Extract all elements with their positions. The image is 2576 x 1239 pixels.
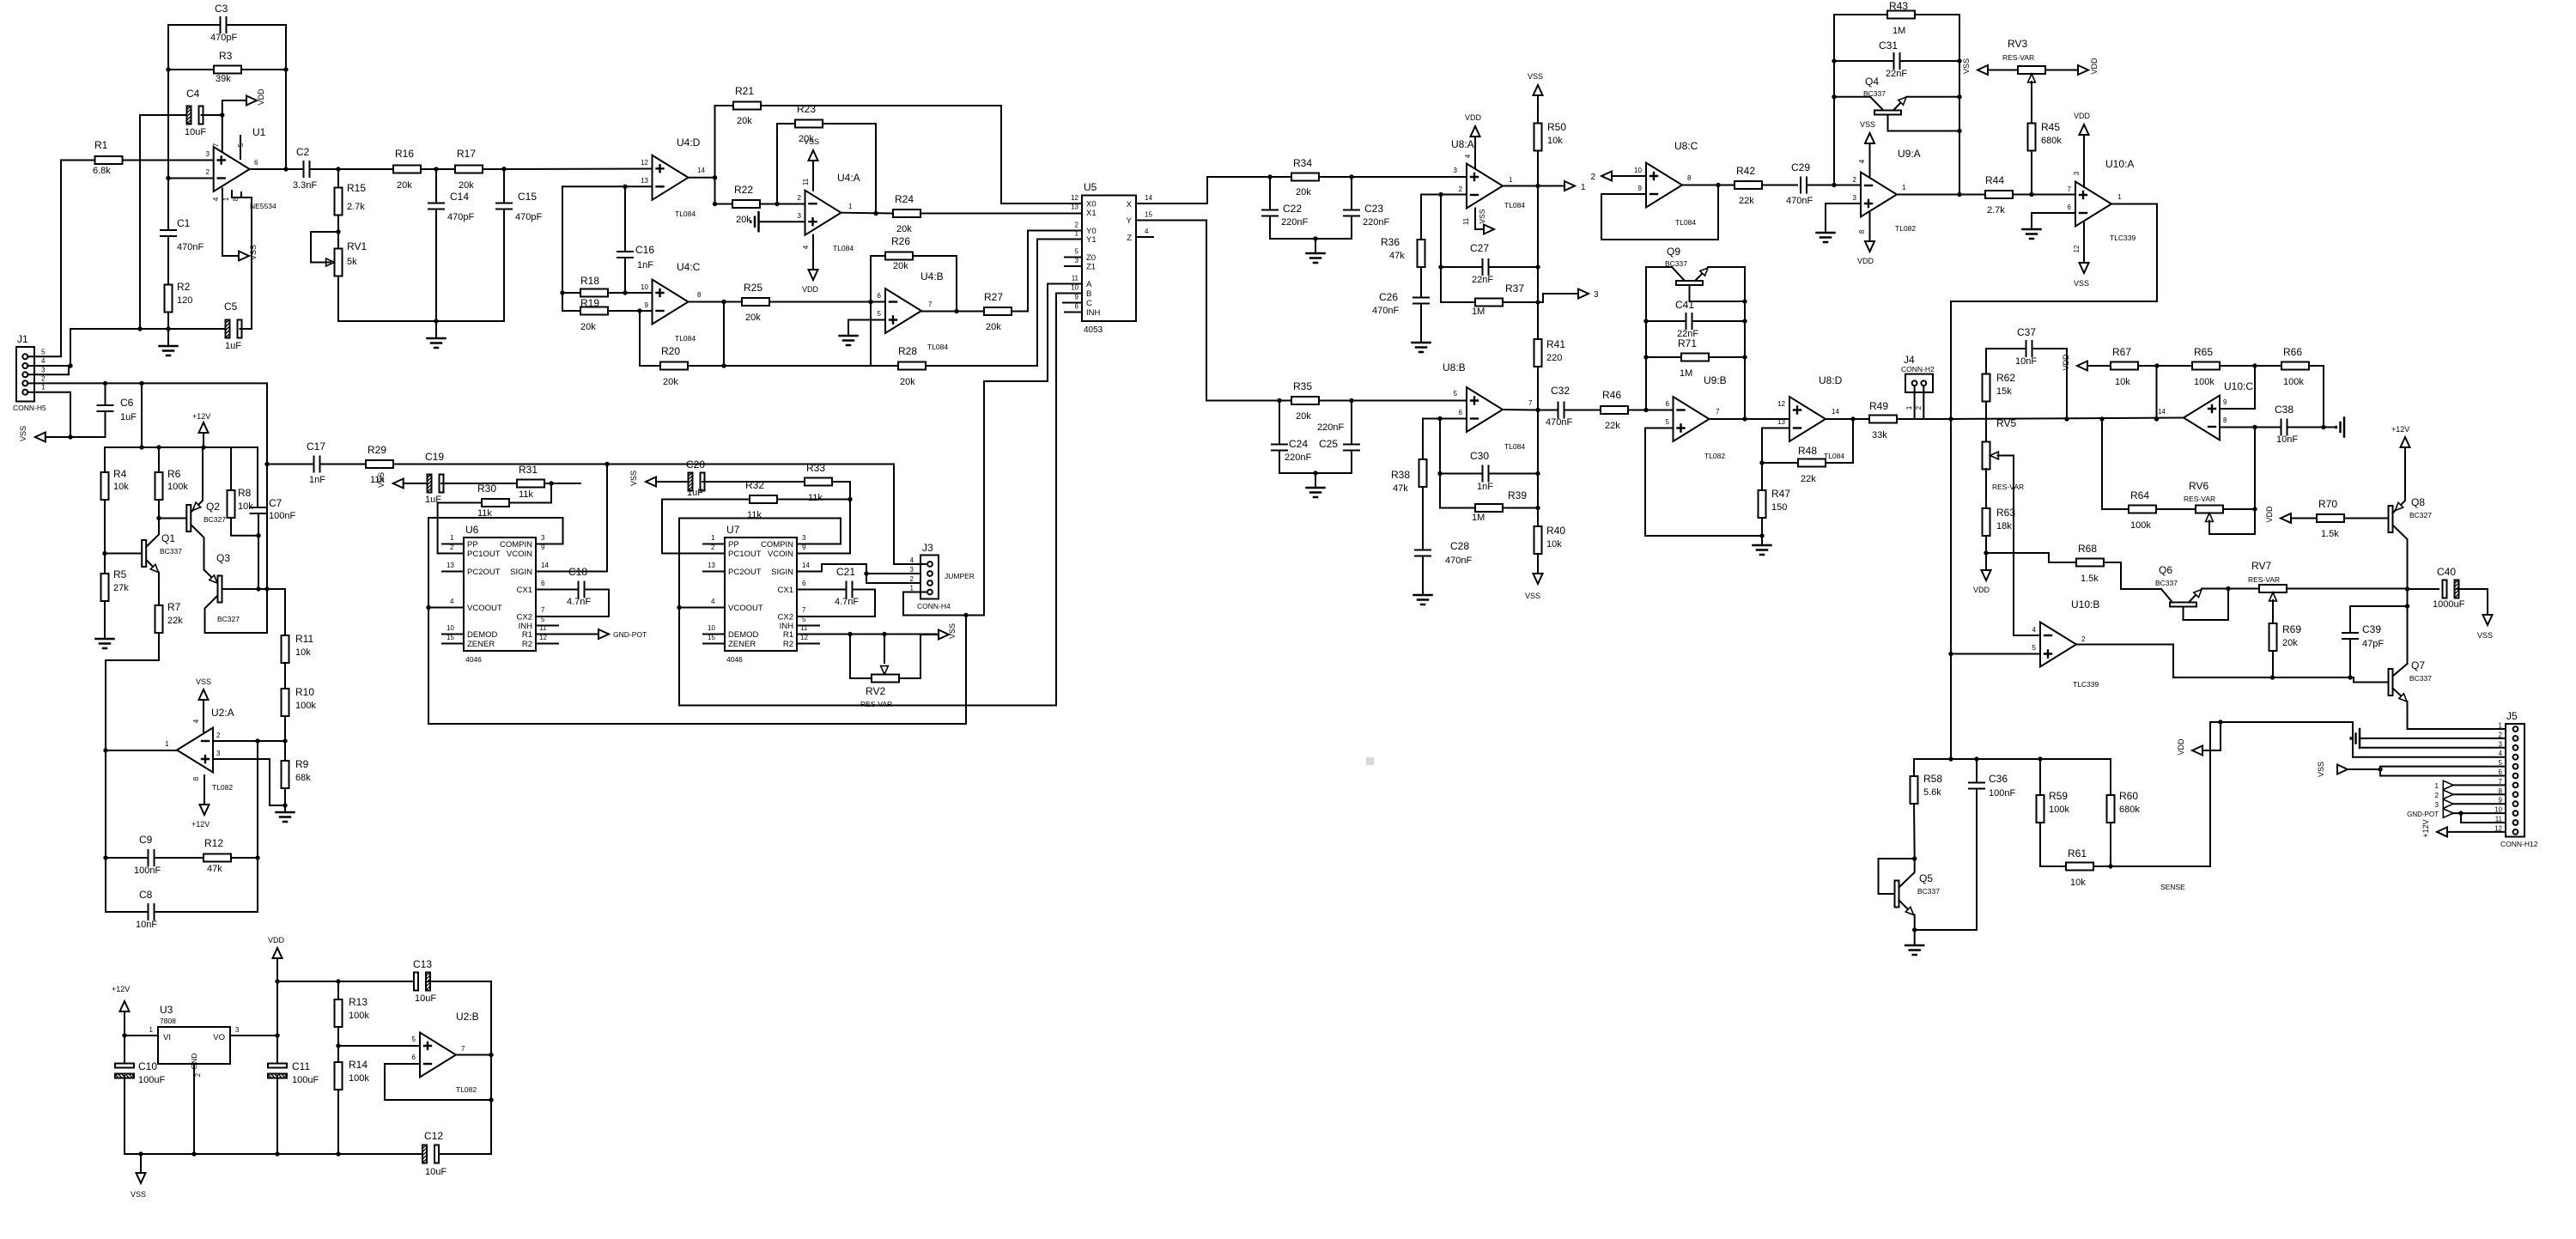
svg-text:R22: R22 <box>734 184 753 196</box>
svg-text:2: 2 <box>216 732 221 739</box>
svg-text:RES-VAR: RES-VAR <box>1992 483 2024 491</box>
wire C3 left rail <box>167 25 169 70</box>
svg-text:VSS: VSS <box>629 471 638 486</box>
svg-text:3: 3 <box>802 534 806 542</box>
net arrow 1 J5 <box>2443 780 2453 789</box>
capacitor C11 polarized <box>276 1036 278 1065</box>
node R71 left <box>1643 355 1648 359</box>
node x165/521 <box>139 445 143 449</box>
svg-text:14: 14 <box>697 167 705 174</box>
wire U6 VCOOUT <box>428 607 464 609</box>
svg-text:R9: R9 <box>295 758 309 770</box>
svg-text:VDD: VDD <box>2074 112 2091 120</box>
node U9:B out <box>1742 416 1747 421</box>
svg-text:470nF: 470nF <box>1445 556 1472 566</box>
wire C20 line VSS <box>646 477 656 487</box>
IC U5 4053 <box>1082 196 1136 322</box>
svg-text:18k: 18k <box>1996 521 2012 531</box>
resistor R48 <box>1762 462 1798 464</box>
node x165 rail top <box>139 381 143 386</box>
node C2/R15 <box>336 167 340 171</box>
wire U10:B pin5 <box>1951 653 2040 655</box>
svg-text:120: 120 <box>177 295 192 306</box>
resistor R64 <box>2102 419 2129 509</box>
svg-text:C18: C18 <box>568 566 587 578</box>
wire R8 bottom <box>231 518 258 536</box>
capacitor C21 <box>847 582 853 598</box>
svg-text:13: 13 <box>447 562 454 569</box>
power VSS arrow U1 pin4 <box>222 255 240 257</box>
svg-text:VDD: VDD <box>268 936 285 944</box>
capacitor C32 <box>1538 410 1558 411</box>
wire U8:B out <box>1503 409 1538 411</box>
svg-text:R2: R2 <box>177 281 191 293</box>
node RV2 wiper top <box>882 632 886 636</box>
svg-text:20k: 20k <box>986 322 1001 332</box>
svg-text:11: 11 <box>800 624 808 632</box>
svg-text:R11: R11 <box>295 633 313 645</box>
svg-text:R43: R43 <box>1889 0 1908 12</box>
wire J5 pin3 <box>2360 747 2506 749</box>
node U8:D out <box>1850 416 1855 421</box>
wire U8:A pin2 <box>1421 194 1467 196</box>
wire R35 to U8:B pin5 <box>1352 400 1467 402</box>
battery symbol pin2 <box>2360 738 2506 739</box>
wire RV5 wiper riser <box>2014 456 2040 636</box>
wire U8:B pin6 <box>1423 418 1467 420</box>
pin5 stub <box>240 136 241 159</box>
bottom rail RV1/C14/C15 <box>338 320 504 322</box>
svg-text:RES-VAR: RES-VAR <box>2248 575 2280 584</box>
svg-text:+12V: +12V <box>192 412 210 421</box>
svg-text:1M: 1M <box>1680 368 1692 379</box>
svg-text:2: 2 <box>206 168 210 176</box>
svg-text:1: 1 <box>222 197 230 201</box>
transistor Q4 <box>1834 97 1882 109</box>
wire R45 bottom <box>2031 151 2032 195</box>
svg-text:R23: R23 <box>797 103 816 115</box>
svg-text:7: 7 <box>212 143 220 147</box>
svg-text:10k: 10k <box>1546 539 1562 550</box>
wire to J3 pin3 <box>866 573 927 574</box>
op-amp U4:D <box>653 155 689 200</box>
wire RV5 to R63 <box>1985 469 1987 508</box>
svg-text:7808: 7808 <box>160 1017 176 1025</box>
resistor R2 <box>165 285 173 313</box>
wire R9 bottom <box>284 788 286 805</box>
wire U3 GND <box>193 1064 195 1154</box>
wire U9:B pin5 loop <box>1645 428 1762 537</box>
net VSS arrow J5 <box>2337 765 2348 774</box>
svg-text:BC337: BC337 <box>160 547 182 556</box>
resistor R7 <box>155 605 163 633</box>
svg-text:470nF: 470nF <box>1546 417 1572 428</box>
svg-text:VDD: VDD <box>2177 738 2185 756</box>
svg-text:5: 5 <box>41 348 46 355</box>
stub U5 INH <box>1065 312 1082 313</box>
svg-text:100k: 100k <box>2283 377 2304 387</box>
svg-text:10: 10 <box>708 624 715 632</box>
wire U7 outer rail <box>678 519 680 706</box>
resistor R43 <box>1834 14 1887 15</box>
svg-text:7: 7 <box>928 301 933 308</box>
svg-text:PC1OUT: PC1OUT <box>728 550 762 559</box>
ground C24/C25 <box>1315 473 1316 488</box>
wire U2:A pin2 <box>213 740 285 742</box>
ground Q5 <box>1914 930 1916 945</box>
svg-text:47k: 47k <box>1389 251 1405 261</box>
node out/R22 <box>713 202 717 206</box>
svg-text:7: 7 <box>461 1045 465 1053</box>
svg-text:1: 1 <box>41 384 46 392</box>
svg-text:7: 7 <box>1716 408 1720 416</box>
svg-text:C7: C7 <box>269 497 283 509</box>
wire Q8-Q7 rail <box>2407 589 2409 664</box>
svg-text:470nF: 470nF <box>177 242 204 252</box>
svg-text:1: 1 <box>1581 183 1586 192</box>
svg-text:NE5534: NE5534 <box>250 202 276 210</box>
svg-text:470pF: 470pF <box>515 212 542 222</box>
svg-text:C29: C29 <box>1791 161 1810 173</box>
resistor R13 <box>337 981 339 999</box>
wire Q9 rail left <box>1645 267 1647 410</box>
svg-text:R29: R29 <box>368 444 386 456</box>
wire out riser U8:B <box>1537 410 1539 527</box>
svg-text:11: 11 <box>1072 275 1079 282</box>
svg-text:R30: R30 <box>477 483 496 495</box>
node gnd C24 <box>1313 471 1317 475</box>
svg-text:R61: R61 <box>2068 847 2087 859</box>
svg-text:20k: 20k <box>737 116 752 126</box>
connector J4 <box>1905 374 1933 392</box>
svg-text:C28: C28 <box>1450 540 1469 552</box>
svg-text:R25: R25 <box>744 282 762 294</box>
capacitor C17 <box>314 457 320 472</box>
wire U1 pin2 <box>168 178 214 179</box>
wire U8:C feedback <box>1601 185 1718 240</box>
svg-text:U4:A: U4:A <box>837 172 860 184</box>
node out/R64 riser <box>2099 416 2104 421</box>
capacitor C6 <box>105 383 106 405</box>
bus 884 <box>1914 758 2111 760</box>
svg-text:R15: R15 <box>347 182 366 194</box>
node feedback/rail <box>489 1097 493 1102</box>
svg-text:BC327: BC327 <box>204 515 226 524</box>
svg-text:R62: R62 <box>1996 372 2015 384</box>
ground C22/C23 <box>1315 239 1316 253</box>
node C29/Q4 rail <box>1832 183 1836 187</box>
node out/R23 <box>873 211 878 216</box>
svg-text:10: 10 <box>1634 167 1642 174</box>
wire A to C bus <box>965 616 967 725</box>
svg-text:C10: C10 <box>138 1060 157 1072</box>
node U4:D out <box>713 175 717 179</box>
wire U4:B out <box>921 311 984 313</box>
svg-text:10nF: 10nF <box>2015 356 2037 367</box>
svg-text:14: 14 <box>541 562 549 569</box>
op-amp U8:B <box>1467 387 1503 432</box>
svg-text:6: 6 <box>802 580 806 587</box>
svg-text:COMPIN: COMPIN <box>761 540 793 550</box>
svg-text:C21: C21 <box>836 566 855 578</box>
svg-text:11: 11 <box>802 178 810 185</box>
wire J1 pin5 to R1 <box>27 161 61 357</box>
node pin2 junction <box>283 738 287 743</box>
svg-text:C14: C14 <box>450 191 469 203</box>
wire R34 to U8:A pin3 <box>1352 176 1467 178</box>
svg-text:R65: R65 <box>2194 346 2213 358</box>
svg-text:BC337: BC337 <box>2409 674 2432 683</box>
svg-text:C38: C38 <box>2275 404 2293 416</box>
resistor R60 <box>2110 759 2111 795</box>
svg-text:3: 3 <box>216 750 221 757</box>
net VSS arrow U10:A <box>2083 222 2085 263</box>
svg-text:10nF: 10nF <box>2276 434 2298 445</box>
svg-text:VSS: VSS <box>131 1190 146 1199</box>
power VSS arrow bottom <box>140 1154 142 1173</box>
svg-text:10: 10 <box>447 624 454 632</box>
svg-text:220nF: 220nF <box>1317 422 1344 433</box>
svg-text:1: 1 <box>711 534 715 542</box>
resistor R33 <box>805 478 832 486</box>
node gnd C22 <box>1313 236 1317 240</box>
resistor R35 <box>1279 400 1291 402</box>
svg-text:RV2: RV2 <box>866 685 885 697</box>
svg-text:13: 13 <box>641 177 648 185</box>
svg-text:U3: U3 <box>160 1004 173 1016</box>
op-amp U2:B <box>420 1033 456 1078</box>
svg-text:Q9: Q9 <box>1667 246 1680 258</box>
svg-text:9: 9 <box>802 544 806 551</box>
capacitor C25 <box>1351 401 1352 445</box>
svg-text:R36: R36 <box>1381 236 1400 248</box>
svg-text:R44: R44 <box>1985 174 2004 186</box>
wire R2 to bottom bus <box>167 313 169 330</box>
svg-text:RV6: RV6 <box>2189 480 2208 492</box>
stub U5 Z1 <box>1065 265 1082 267</box>
svg-text:100k: 100k <box>2194 377 2215 387</box>
wire U8:C out <box>1682 185 1735 186</box>
svg-text:R16: R16 <box>395 148 414 160</box>
svg-text:10nF: 10nF <box>136 920 157 930</box>
wire Q2 base <box>159 518 186 519</box>
svg-text:5: 5 <box>1454 390 1458 398</box>
svg-text:9: 9 <box>1075 294 1079 301</box>
svg-text:22k: 22k <box>1801 474 1816 484</box>
capacitor C29 <box>1801 178 1807 193</box>
capacitor C22 <box>1269 177 1271 210</box>
svg-text:10k: 10k <box>2115 377 2130 387</box>
node C41 right <box>1742 319 1747 323</box>
wire R47 bottom <box>1761 518 1763 536</box>
svg-text:C11: C11 <box>292 1060 310 1072</box>
svg-text:2: 2 <box>711 544 715 551</box>
svg-text:R31: R31 <box>519 464 538 476</box>
signal ground C38 <box>2343 418 2346 437</box>
svg-text:20k: 20k <box>580 322 596 332</box>
node pin5/6 riser <box>2378 767 2382 771</box>
capacitor C19 polarized <box>428 475 432 493</box>
node U8:B out <box>1535 408 1540 412</box>
node C31 left <box>1832 58 1836 63</box>
svg-text:R6: R6 <box>167 468 181 480</box>
svg-text:8: 8 <box>1858 229 1866 234</box>
node U7 VCOOUT <box>677 605 681 610</box>
node R6 top <box>156 445 161 449</box>
net arrow 2 J5 <box>2443 790 2453 799</box>
svg-text:20k: 20k <box>663 377 678 387</box>
svg-text:TLC339: TLC339 <box>2110 234 2136 242</box>
node +12V stem <box>201 445 205 449</box>
power +12V arrow U2:A <box>204 775 205 805</box>
wire x300 down <box>257 741 258 858</box>
resistor R36 <box>1420 195 1422 240</box>
svg-text:6: 6 <box>1666 400 1670 408</box>
svg-text:C39: C39 <box>2362 623 2381 635</box>
resistor R45 <box>2028 124 2036 151</box>
stub U6 ZENER <box>442 643 464 645</box>
svg-text:VO: VO <box>213 1033 225 1042</box>
svg-text:14: 14 <box>1832 408 1839 416</box>
wire U7 CX1 <box>797 589 847 591</box>
svg-text:R67: R67 <box>2112 346 2131 358</box>
svg-text:470pF: 470pF <box>447 212 474 222</box>
node VO/C11 <box>275 1033 279 1037</box>
svg-text:4: 4 <box>1464 154 1472 158</box>
svg-text:13: 13 <box>1071 203 1078 211</box>
svg-text:TL082: TL082 <box>1895 224 1916 233</box>
svg-text:2: 2 <box>1075 222 1079 229</box>
svg-text:VI: VI <box>163 1033 171 1042</box>
wire U5 Y out <box>1136 221 1279 401</box>
wire J4 pin1 <box>1914 386 1916 419</box>
resistor R49 <box>1869 416 1897 423</box>
svg-text:5: 5 <box>2032 644 2037 652</box>
svg-text:R1: R1 <box>94 139 108 151</box>
wire U4:C out riser <box>723 302 725 367</box>
net VSS arrow C40 <box>2487 589 2488 615</box>
svg-text:VSS: VSS <box>196 677 211 686</box>
svg-text:VSS: VSS <box>1478 209 1486 223</box>
resistor R62 <box>1983 374 1990 402</box>
resistor R17 <box>455 166 483 173</box>
svg-text:VDD: VDD <box>1857 257 1874 265</box>
node C15 top <box>501 167 506 171</box>
svg-text:1: 1 <box>2435 782 2439 790</box>
svg-text:U9:B: U9:B <box>1704 374 1727 386</box>
svg-text:1M: 1M <box>1472 307 1485 317</box>
wire C7 node to base <box>258 536 259 589</box>
svg-text:X: X <box>1127 200 1133 210</box>
node C4 rail bottom <box>137 326 142 331</box>
wire J3 pin4 <box>894 465 927 565</box>
svg-text:U4:C: U4:C <box>677 261 701 273</box>
svg-text:U2:A: U2:A <box>211 707 234 719</box>
wire R62 to RV5 <box>1985 402 1987 443</box>
svg-text:VSS: VSS <box>1962 58 1971 74</box>
stub U7 PP <box>703 544 725 545</box>
stub U6 R2 <box>536 643 558 645</box>
svg-text:VDD: VDD <box>2062 354 2070 371</box>
svg-text:R12: R12 <box>204 837 223 849</box>
svg-text:R17: R17 <box>457 148 476 160</box>
capacitor C36 <box>1976 759 1978 783</box>
svg-text:PC1OUT: PC1OUT <box>467 550 501 559</box>
power VDD arrow U3 <box>276 958 278 981</box>
svg-text:3: 3 <box>235 1026 240 1034</box>
svg-text:C32: C32 <box>1551 385 1570 397</box>
node U2:A output <box>103 748 107 752</box>
capacitor C16 <box>624 186 626 252</box>
wire y383 bus <box>70 328 168 330</box>
svg-text:R37: R37 <box>1505 282 1524 295</box>
svg-text:6: 6 <box>541 580 545 587</box>
svg-text:Q5: Q5 <box>1919 872 1933 884</box>
resistor R25 <box>742 298 769 306</box>
svg-text:COMPIN: COMPIN <box>500 540 532 550</box>
svg-text:27k: 27k <box>113 583 129 593</box>
capacitor C37 loop <box>1986 349 2026 374</box>
svg-text:R41: R41 <box>1546 338 1565 350</box>
svg-text:Q2: Q2 <box>206 501 220 513</box>
resistor R68 <box>1986 553 2076 562</box>
svg-text:C1: C1 <box>177 217 191 229</box>
svg-text:12: 12 <box>1071 194 1078 202</box>
svg-text:RES-VAR: RES-VAR <box>2184 495 2215 503</box>
svg-text:1M: 1M <box>1472 513 1485 523</box>
svg-text:3: 3 <box>1853 194 1857 202</box>
svg-text:680k: 680k <box>2119 805 2140 815</box>
svg-text:JUMPER: JUMPER <box>945 572 975 580</box>
svg-text:470nF: 470nF <box>1786 196 1813 206</box>
node C6 top <box>103 381 107 386</box>
node R34 right <box>1349 174 1353 179</box>
svg-text:4: 4 <box>450 598 454 605</box>
transistor Q8 <box>2389 506 2393 532</box>
power VSS arrow U2:A <box>203 700 204 732</box>
svg-text:R64: R64 <box>2130 489 2149 501</box>
wire 841 link <box>2210 721 2353 723</box>
svg-text:R20: R20 <box>661 345 680 357</box>
svg-text:15: 15 <box>1145 211 1152 219</box>
wire R28 riser <box>870 302 872 367</box>
connector J5 <box>2506 724 2524 837</box>
svg-text:2.7k: 2.7k <box>347 202 365 212</box>
wire R30 riser <box>550 483 552 503</box>
resistor R19 <box>562 310 580 312</box>
svg-text:6: 6 <box>412 1054 416 1061</box>
svg-text:1: 1 <box>450 534 454 542</box>
potentiometer RV3 <box>1978 65 1988 75</box>
svg-text:220nF: 220nF <box>1281 217 1308 228</box>
svg-text:VSS: VSS <box>804 137 819 146</box>
svg-text:220nF: 220nF <box>1363 217 1389 228</box>
net VSS arrow RV2 <box>920 634 939 635</box>
resistor R42 <box>1735 181 1762 189</box>
svg-text:INH: INH <box>1086 308 1101 318</box>
svg-text:BC337: BC337 <box>1863 89 1886 98</box>
node pin2/x300 <box>255 738 259 743</box>
svg-text:R27: R27 <box>984 291 1003 303</box>
net arrow 3 <box>1578 289 1589 299</box>
svg-text:20k: 20k <box>745 313 761 323</box>
svg-text:Y1: Y1 <box>1086 235 1097 245</box>
power VDD arrow R63 <box>1985 553 1987 570</box>
transistor Q3 <box>204 570 215 580</box>
resistor R69 <box>2269 623 2277 651</box>
svg-text:R26: R26 <box>891 235 910 247</box>
wire U10:B out <box>2076 645 2173 678</box>
